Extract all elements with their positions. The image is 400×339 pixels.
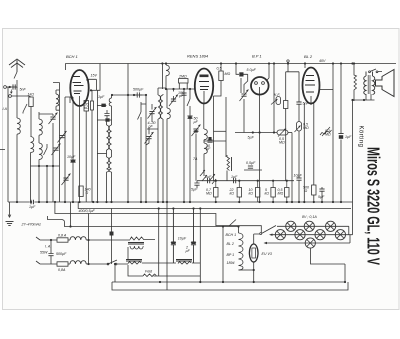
wire x17 down bbox=[16, 87, 18, 118]
BP1 top feed bbox=[266, 64, 269, 82]
row 166 bbox=[31, 166, 60, 202]
trimmer C5 bbox=[52, 144, 61, 156]
diode arrows bbox=[200, 170, 207, 181]
svg-text:BCH 1: BCH 1 bbox=[66, 54, 78, 59]
resistor 140 Ohm bbox=[79, 186, 83, 197]
wire x17 low bbox=[16, 134, 18, 202]
coil x167 lower bbox=[167, 108, 170, 119]
svg-text:1894: 1894 bbox=[227, 261, 235, 265]
svg-text:5µF: 5µF bbox=[248, 136, 255, 140]
trimmer bp1 bbox=[240, 90, 249, 102]
svg-text:8V ; 0,1A: 8V ; 0,1A bbox=[302, 215, 317, 219]
svg-text:MΩ: MΩ bbox=[225, 72, 231, 76]
tube BP1 bbox=[251, 77, 269, 95]
kf pot arrow bbox=[271, 99, 278, 105]
trimmer mid bbox=[148, 107, 157, 119]
transformer 2 core bbox=[126, 260, 142, 262]
euv3 bottom lead bbox=[253, 263, 255, 283]
svg-text:0,8 A: 0,8 A bbox=[58, 234, 67, 238]
antenna bbox=[9, 59, 25, 72]
cap 10uF right bbox=[296, 178, 301, 180]
IF transformer top coil bbox=[166, 65, 169, 76]
cap x190 bbox=[187, 116, 192, 118]
svg-text:55W: 55W bbox=[40, 251, 48, 255]
switch right bbox=[187, 89, 190, 202]
lamp bus wires bbox=[266, 202, 353, 243]
ground left bbox=[9, 202, 11, 217]
cap 500uF bbox=[48, 240, 53, 264]
wire x162 bbox=[161, 64, 163, 90]
bottom trimmer wires bbox=[146, 127, 149, 145]
euv3 top lead bbox=[254, 234, 261, 244]
wire x292 pot lead bbox=[291, 133, 293, 203]
wire row131 bbox=[214, 130, 227, 132]
svg-text:I. A.: I. A. bbox=[45, 245, 51, 249]
svg-text:400/0,5µF: 400/0,5µF bbox=[79, 209, 96, 213]
coil pair col R x111.5 bbox=[109, 98, 111, 172]
resistor R 1kOhm bbox=[29, 97, 33, 107]
wire top bus bbox=[66, 64, 396, 71]
speaker resistor bbox=[354, 64, 357, 102]
svg-text:K.F.: K.F. bbox=[274, 93, 280, 97]
lamp row2 d bbox=[335, 230, 345, 240]
trimmer C6 bbox=[62, 174, 71, 186]
arrow down small bbox=[10, 90, 12, 94]
trimmer C7 bbox=[58, 131, 67, 143]
plug ends bbox=[36, 237, 40, 264]
wire x352 bbox=[353, 100, 355, 202]
resistor 2M horizontal bbox=[179, 79, 189, 83]
wire input row2 bbox=[11, 96, 31, 97]
lamp row2 c bbox=[315, 230, 325, 240]
svg-text:1kΩ: 1kΩ bbox=[28, 93, 35, 97]
svg-text:BCH 1: BCH 1 bbox=[226, 233, 237, 237]
switch S1 bbox=[44, 144, 48, 155]
svg-text:40V: 40V bbox=[319, 59, 326, 63]
link verticals mains bbox=[88, 214, 90, 265]
svg-text:7A: 7A bbox=[193, 157, 198, 161]
coil under bbox=[130, 246, 143, 249]
cap 1uF x341 bbox=[338, 133, 343, 135]
dark cap2 bbox=[105, 118, 109, 121]
junction dots row166 bbox=[38, 165, 40, 167]
BP1 lead bbox=[259, 96, 261, 203]
wire row90 bbox=[91, 89, 97, 91]
speaker switch bbox=[369, 69, 382, 73]
svg-text:10µF: 10µF bbox=[294, 174, 303, 178]
svg-text:MΩ: MΩ bbox=[303, 126, 309, 130]
switch circle heater bbox=[260, 233, 262, 235]
dark cap blob x240 bbox=[239, 72, 243, 76]
cap 50uF bbox=[236, 64, 248, 94]
row y153.5 bbox=[97, 153, 106, 155]
small cap x107 bbox=[104, 110, 109, 118]
svg-text:0,8A: 0,8A bbox=[58, 268, 66, 272]
switch input bbox=[23, 104, 27, 112]
small cap left of bp1 bbox=[240, 78, 242, 93]
svg-text:10µF: 10µF bbox=[67, 155, 76, 159]
box resistor x285.7 bbox=[284, 101, 288, 109]
speaker bottom wire bbox=[353, 94, 375, 100]
cap 500pF bbox=[134, 92, 142, 97]
resistor 0,5M vertical bbox=[219, 71, 223, 81]
wire x65 bbox=[64, 97, 66, 202]
cap x184 small bbox=[181, 93, 186, 95]
cap 5nF right bars bbox=[296, 102, 301, 104]
cap 1uF b bbox=[234, 178, 236, 183]
dots det row bbox=[215, 180, 217, 182]
svg-text:27–470mHz: 27–470mHz bbox=[21, 223, 42, 227]
svg-text:10µF: 10µF bbox=[178, 237, 187, 241]
lamp row1 c bbox=[326, 221, 336, 231]
svg-text:MΩ: MΩ bbox=[206, 192, 212, 196]
svg-text:Ω: Ω bbox=[86, 191, 89, 195]
diode arrows b bbox=[210, 174, 216, 184]
wire tube left lead bbox=[70, 97, 73, 103]
wire x341 bbox=[340, 64, 342, 203]
lamp row3 bbox=[305, 238, 315, 248]
choke bottom bbox=[70, 261, 86, 264]
svg-text:RENS 1894: RENS 1894 bbox=[187, 54, 209, 59]
heater chain coil bbox=[239, 233, 244, 270]
caps 10uF 2uF bbox=[171, 209, 176, 264]
svg-text:EU V3: EU V3 bbox=[262, 252, 272, 256]
svg-text:Feld: Feld bbox=[145, 270, 153, 274]
svg-text:Körting: Körting bbox=[358, 126, 364, 148]
dots detector bbox=[273, 131, 275, 133]
wire tube right plate bbox=[88, 79, 96, 90]
dots output bbox=[332, 62, 334, 64]
svg-text:BP 1: BP 1 bbox=[227, 253, 235, 257]
transformer core bbox=[128, 243, 144, 245]
wire main ground bus bbox=[8, 201, 353, 203]
wire x97.4 bbox=[96, 90, 98, 202]
tube RENS1894 bbox=[195, 69, 213, 104]
row y105.5 bbox=[97, 105, 106, 107]
svg-text:5nF: 5nF bbox=[20, 88, 27, 92]
cap x322 wires bbox=[321, 187, 323, 202]
wire x213.5 bbox=[213, 96, 215, 181]
trimmer bottom bbox=[145, 132, 154, 144]
wire y72 right bbox=[286, 64, 299, 72]
svg-text:1µF: 1µF bbox=[98, 95, 105, 99]
tube RENS leads bbox=[203, 103, 205, 129]
pot K.F. feed bbox=[276, 97, 281, 105]
wire left edge vertical bbox=[7, 87, 9, 202]
dots row95 bbox=[127, 94, 129, 96]
svg-text:pF: pF bbox=[148, 125, 154, 129]
svg-text:Miros S 3220 GL, 110 V: Miros S 3220 GL, 110 V bbox=[364, 147, 384, 265]
lamp row2 a bbox=[275, 230, 285, 240]
wire BL2 plate right bbox=[320, 89, 334, 91]
BL2 leads bbox=[304, 103, 314, 202]
switch mid bbox=[138, 102, 147, 120]
coil L4 bbox=[39, 143, 42, 160]
det row left cap bbox=[194, 181, 199, 189]
coil L1 bbox=[17, 118, 20, 134]
coil L3 bbox=[39, 119, 42, 135]
tube EUV3 bbox=[249, 244, 258, 262]
svg-text:5 0µF: 5 0µF bbox=[247, 68, 257, 72]
tube BL2 bbox=[303, 68, 320, 106]
dots IF bbox=[165, 88, 167, 90]
svg-text:0,5: 0,5 bbox=[217, 67, 222, 71]
wire x73 grid bbox=[65, 97, 73, 202]
wire x299 bbox=[298, 72, 300, 122]
svg-text:5nF: 5nF bbox=[303, 102, 310, 106]
terminal circles bbox=[4, 86, 7, 89]
wire x100 top bbox=[97, 64, 100, 91]
svg-text:kΩ: kΩ bbox=[84, 106, 89, 110]
svg-text:2MΩ: 2MΩ bbox=[178, 75, 187, 79]
terminal circle on bus bbox=[287, 60, 289, 62]
wires coil pair bbox=[107, 95, 112, 202]
trimmer arrow C4 bbox=[49, 113, 58, 125]
coil small x56 bbox=[56, 94, 59, 106]
wire x59.5 bbox=[53, 83, 60, 167]
transformer 3 bbox=[176, 260, 192, 262]
coil x204 a bbox=[204, 129, 207, 140]
wire x250 mid bbox=[244, 169, 262, 171]
lamp row2 b bbox=[295, 230, 305, 240]
wire row132 bbox=[235, 132, 277, 134]
chain top bbox=[238, 227, 240, 234]
coil L2 bbox=[31, 137, 34, 153]
wire bus3 bbox=[55, 202, 261, 233]
svg-text:kΩ: kΩ bbox=[230, 192, 235, 196]
trimmer lead bp1 bbox=[243, 99, 245, 133]
field zigzag bbox=[143, 274, 156, 277]
zigzag vertical bbox=[227, 155, 230, 181]
wire bus2 bbox=[78, 202, 351, 209]
resistor boxes bbox=[214, 181, 289, 202]
trimmer C4 wires bbox=[52, 114, 54, 166]
cap block x111.5 bbox=[111, 209, 113, 265]
svg-text:MΩ: MΩ bbox=[279, 141, 285, 145]
wire row141 bbox=[204, 140, 226, 142]
svg-text:B.P 1: B.P 1 bbox=[252, 54, 262, 59]
coil x158 a bbox=[158, 95, 160, 119]
fuse 0,8A bottom bbox=[57, 262, 68, 266]
wire x80 stub bbox=[70, 202, 72, 227]
resistor 500 bbox=[312, 185, 316, 195]
wire bus4 bbox=[48, 216, 239, 227]
cap 10uF mid bbox=[207, 140, 212, 142]
dark cap x104 bbox=[101, 104, 105, 107]
switch heater bbox=[229, 220, 236, 227]
loop wires field bbox=[115, 209, 200, 283]
svg-text:kΩ: kΩ bbox=[265, 192, 270, 196]
pot vertical right bbox=[297, 122, 302, 132]
resistor zigzag top bbox=[130, 237, 143, 240]
lamp row1 a bbox=[286, 221, 296, 231]
extra verticals mid bbox=[141, 117, 196, 202]
vertical left chain bbox=[222, 227, 224, 283]
row y120 bbox=[97, 119, 111, 121]
svg-text:kΩ: kΩ bbox=[249, 192, 254, 196]
mains line 2 bbox=[40, 263, 57, 265]
wire input row1 bbox=[6, 86, 17, 88]
svg-text:1µF: 1µF bbox=[205, 175, 212, 179]
wire row95 center bbox=[112, 64, 146, 203]
svg-text:pF: pF bbox=[178, 94, 184, 98]
dot mains bbox=[50, 239, 52, 241]
slanted pot 0,1M bbox=[320, 127, 332, 136]
cap small x322 bbox=[319, 189, 324, 191]
mains line 1 bbox=[40, 239, 57, 241]
svg-text:1µF: 1µF bbox=[231, 175, 238, 179]
wire tube bottom bbox=[79, 105, 81, 202]
svg-text:I.A: I.A bbox=[3, 107, 8, 111]
cap 0,5uF mid bbox=[248, 166, 253, 168]
svg-text:BL 2: BL 2 bbox=[304, 54, 313, 59]
tube BCH1 bbox=[70, 70, 89, 106]
antenna switch bbox=[14, 72, 17, 88]
series cap in bus bbox=[30, 200, 35, 204]
svg-text:500µF: 500µF bbox=[56, 252, 67, 256]
svg-text:BL 2: BL 2 bbox=[227, 242, 234, 246]
main bus junction dots bbox=[16, 201, 342, 203]
svg-text:MΩ: MΩ bbox=[278, 192, 284, 196]
svg-text:15V: 15V bbox=[91, 74, 98, 78]
wire x305 bbox=[304, 64, 306, 69]
svg-text:1µF: 1µF bbox=[345, 135, 352, 139]
trimmer wire bbox=[151, 104, 153, 122]
coil x163 b bbox=[161, 95, 163, 119]
cap 100pF bbox=[173, 89, 175, 100]
lamp3 drop bbox=[311, 249, 346, 283]
wires IF top bbox=[166, 64, 195, 90]
cap 1uF a bbox=[208, 178, 210, 183]
detector row wire bbox=[197, 180, 294, 182]
coil x204 b bbox=[204, 143, 207, 154]
box x92 bbox=[91, 101, 94, 110]
switch knife bbox=[100, 260, 128, 264]
speaker cone bbox=[376, 70, 395, 97]
dots heater bbox=[222, 225, 224, 227]
svg-text:0,5µF: 0,5µF bbox=[246, 161, 256, 165]
pot horizontal bbox=[277, 130, 288, 135]
cap 10uF x73 bbox=[70, 160, 75, 162]
chain bottom bbox=[239, 269, 254, 271]
fuse 0,8A top bbox=[57, 238, 68, 242]
coil pair col L x106.5 bbox=[107, 125, 109, 172]
wire x146 bbox=[145, 95, 147, 202]
lamp left arrows bbox=[264, 234, 273, 245]
wires x158 bbox=[147, 88, 166, 202]
svg-text:5µF: 5µF bbox=[318, 195, 325, 199]
svg-text:Ω: Ω bbox=[305, 189, 308, 193]
terminal E tick bbox=[0, 149, 5, 151]
speaker transformer bbox=[364, 72, 375, 95]
svg-text:1µF: 1µF bbox=[29, 205, 36, 209]
trimmer IF bbox=[169, 95, 178, 107]
pot arrows bbox=[278, 126, 301, 137]
lamp switch lever bbox=[262, 226, 277, 234]
trimmer x196 bbox=[192, 125, 201, 137]
wire x184 bbox=[183, 89, 185, 202]
bottom link bbox=[112, 209, 348, 291]
wire x226 bbox=[225, 97, 227, 157]
svg-text:5µF: 5µF bbox=[191, 188, 198, 192]
resistor 20k bbox=[84, 101, 89, 112]
cap ant 5nF bbox=[13, 84, 15, 89]
wire x333 bbox=[332, 64, 334, 203]
lamp row1 b bbox=[304, 221, 314, 231]
choke top bbox=[70, 237, 86, 240]
svg-text:500µF: 500µF bbox=[133, 88, 144, 92]
svg-text:MΩ: MΩ bbox=[325, 133, 331, 137]
